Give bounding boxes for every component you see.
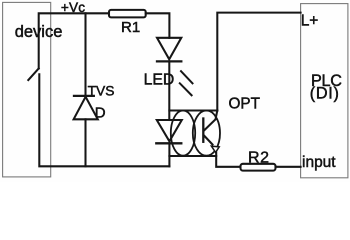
svg-text:L+: L+: [301, 13, 319, 30]
svg-text:device: device: [15, 23, 63, 41]
svg-text:D: D: [95, 104, 106, 121]
svg-text:TVS: TVS: [88, 84, 115, 99]
svg-text:input: input: [302, 154, 336, 171]
svg-text:R1: R1: [121, 19, 140, 36]
svg-text:R2: R2: [248, 149, 270, 166]
svg-text:LED: LED: [144, 72, 175, 89]
svg-text:(DI): (DI): [310, 85, 340, 103]
svg-text:OPT: OPT: [229, 96, 260, 113]
svg-text:+Vc: +Vc: [61, 0, 85, 15]
